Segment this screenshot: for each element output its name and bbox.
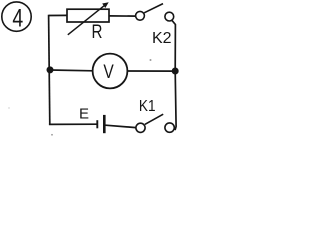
wire left vertical side xyxy=(49,15,50,125)
switch K2 arm xyxy=(144,4,163,13)
wire top-left from corner to resistor xyxy=(49,14,68,16)
svg-text:K1: K1 xyxy=(139,98,156,115)
switch K1 left contact xyxy=(136,123,145,132)
wire right vertical down to K1 xyxy=(174,71,176,129)
battery E short plate xyxy=(96,120,98,128)
switch K1 arm xyxy=(145,114,163,124)
wire resistor to switch K2 xyxy=(109,15,136,17)
switch K1 right contact xyxy=(165,123,174,132)
svg-text:R: R xyxy=(92,21,103,43)
switch K2 right contact xyxy=(165,12,174,21)
speckle noise dots xyxy=(8,59,151,136)
svg-text:E: E xyxy=(79,106,89,123)
switch K2 left contact xyxy=(136,11,145,20)
battery E long plate xyxy=(103,115,106,133)
wire voltmeter right lead xyxy=(127,70,175,72)
node left junction xyxy=(47,66,54,73)
node right junction xyxy=(172,68,179,75)
wire battery to switch K1 xyxy=(106,125,136,127)
svg-text:K2: K2 xyxy=(152,30,172,47)
voltmeter V1 xyxy=(93,54,128,89)
figure number badge 4 xyxy=(2,2,31,32)
svg-text:V: V xyxy=(103,61,114,83)
wire K2 to right side vertical xyxy=(172,20,176,71)
resistor R1 body xyxy=(67,9,109,22)
wire voltmeter left lead xyxy=(50,69,93,72)
svg-text:4: 4 xyxy=(12,4,23,32)
resistor R1 variable arrow xyxy=(68,2,109,35)
wire bottom-left from corner to battery xyxy=(49,123,97,125)
